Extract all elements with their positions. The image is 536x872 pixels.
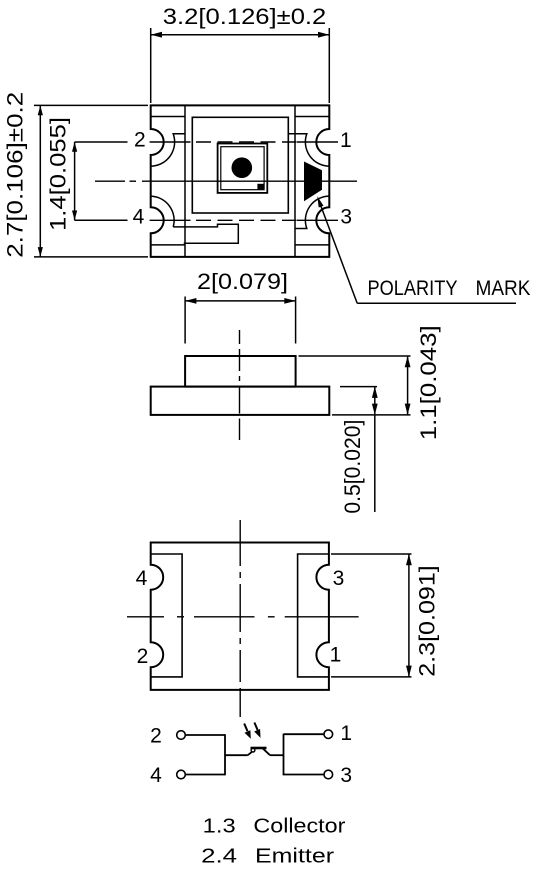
side view base rectangle (151, 387, 330, 415)
top view pad step lines (151, 117, 330, 245)
wire right junction bar (283, 734, 285, 776)
phototransistor base bar (251, 747, 267, 750)
light arrow 1 (244, 724, 251, 739)
pin row 4-3 dashed line (150, 219, 338, 221)
svg-text:2: 2 (150, 724, 162, 747)
pin row 2-1 dashed line (150, 141, 338, 143)
wire pin4 to junction (186, 774, 226, 776)
pin 2 outer arc (151, 134, 185, 166)
pin 3 outer arc (295, 196, 329, 228)
wire junction to pin3 (284, 774, 325, 776)
svg-text:4: 4 (133, 205, 145, 228)
svg-text:3.2[0.126]±0.2: 3.2[0.126]±0.2 (163, 4, 326, 29)
side view vertical center line (239, 330, 241, 440)
dimension 0.5 arrowheads (372, 387, 378, 415)
schematic pin 4 terminal (177, 770, 186, 779)
die inner square (221, 147, 264, 190)
dimension 2.3 arrowheads (406, 554, 412, 677)
dimension 1.1 arrowheads (405, 356, 411, 415)
svg-text:4: 4 (136, 567, 148, 590)
phototransistor emitter circle (251, 748, 255, 752)
top view right pad edge (294, 105, 296, 257)
svg-text:2.7[0.106]±0.2: 2.7[0.106]±0.2 (2, 92, 27, 258)
top view left pad edge (184, 105, 186, 257)
svg-text:3: 3 (333, 567, 345, 590)
pin 4 outer arc (151, 196, 174, 227)
svg-text:2: 2 (137, 645, 149, 668)
svg-text:1.1[0.043]: 1.1[0.043] (416, 325, 441, 440)
schematic pin 1 terminal (324, 730, 333, 739)
bottom view vertical center line (239, 520, 241, 717)
top view package outline with notch cutouts (151, 105, 330, 257)
bottom view right pad (298, 554, 329, 677)
svg-text:0.5[0.020]: 0.5[0.020] (340, 420, 365, 514)
dimension 1.4 arrowheads (72, 142, 77, 220)
bottom view horizontal center line (127, 616, 359, 618)
dimension 2.7 dim line (34, 105, 148, 257)
dimension 0.5 dim line (340, 387, 377, 512)
top view horizontal center line (95, 180, 357, 182)
svg-text:1.3: 1.3 (203, 815, 236, 837)
cathode tab outline bottom-left (173, 224, 238, 245)
dimension 2.3 dim line (331, 554, 412, 677)
polarity leader arrowhead (317, 196, 323, 207)
wire pin2 to junction (186, 734, 226, 736)
phototransistor emitter lead (248, 752, 252, 755)
dimension 1.1 dim line (299, 356, 411, 415)
svg-text:1.4[0.055]: 1.4[0.055] (46, 117, 71, 231)
svg-text:2.3[0.091]: 2.3[0.091] (415, 565, 440, 677)
bottom view left pad (151, 554, 182, 677)
wire left junction bar (224, 734, 226, 775)
svg-text:1: 1 (340, 722, 352, 745)
svg-text:Collector: Collector (253, 815, 345, 837)
pin 1 outer arc (288, 134, 329, 166)
die outer square (218, 144, 268, 193)
polarity mark triangle (304, 162, 322, 202)
wire collector to junction (270, 754, 284, 756)
svg-text:2[0.079]: 2[0.079] (197, 269, 288, 294)
svg-text:1: 1 (340, 129, 352, 152)
die circle (232, 157, 253, 178)
die bond pad square (257, 184, 263, 190)
svg-text:POLARITY: POLARITY (368, 277, 458, 300)
svg-text:2.4: 2.4 (201, 845, 237, 867)
svg-text:1: 1 (330, 644, 342, 667)
phototransistor collector lead (263, 748, 271, 755)
wire junction to emitter (225, 754, 248, 756)
dimension 3.2 arrowheads (151, 32, 330, 38)
top view reflector inner rectangle (192, 117, 288, 213)
svg-text:2: 2 (134, 129, 146, 152)
polarity leader line (319, 201, 516, 303)
light arrow 2 (254, 723, 260, 738)
dimension 3.2 dim line (151, 28, 330, 103)
side view dimension 2 dim line (185, 297, 296, 344)
svg-text:MARK: MARK (476, 277, 531, 300)
dimension 1.4 dim line (75, 142, 128, 220)
schematic pin 2 terminal (177, 731, 186, 740)
dimension 2.7 arrowheads (38, 105, 43, 257)
side view top body rectangle (185, 356, 296, 387)
svg-text:3: 3 (340, 764, 352, 787)
svg-text:3: 3 (340, 205, 352, 228)
svg-text:4: 4 (150, 764, 162, 787)
wire junction to pin1 (284, 733, 325, 735)
bottom view outline with notch cutouts (151, 543, 329, 690)
svg-text:Emitter: Emitter (255, 845, 334, 867)
schematic pin 3 terminal (324, 770, 333, 779)
side view dimension 2 arrowheads (185, 298, 296, 304)
